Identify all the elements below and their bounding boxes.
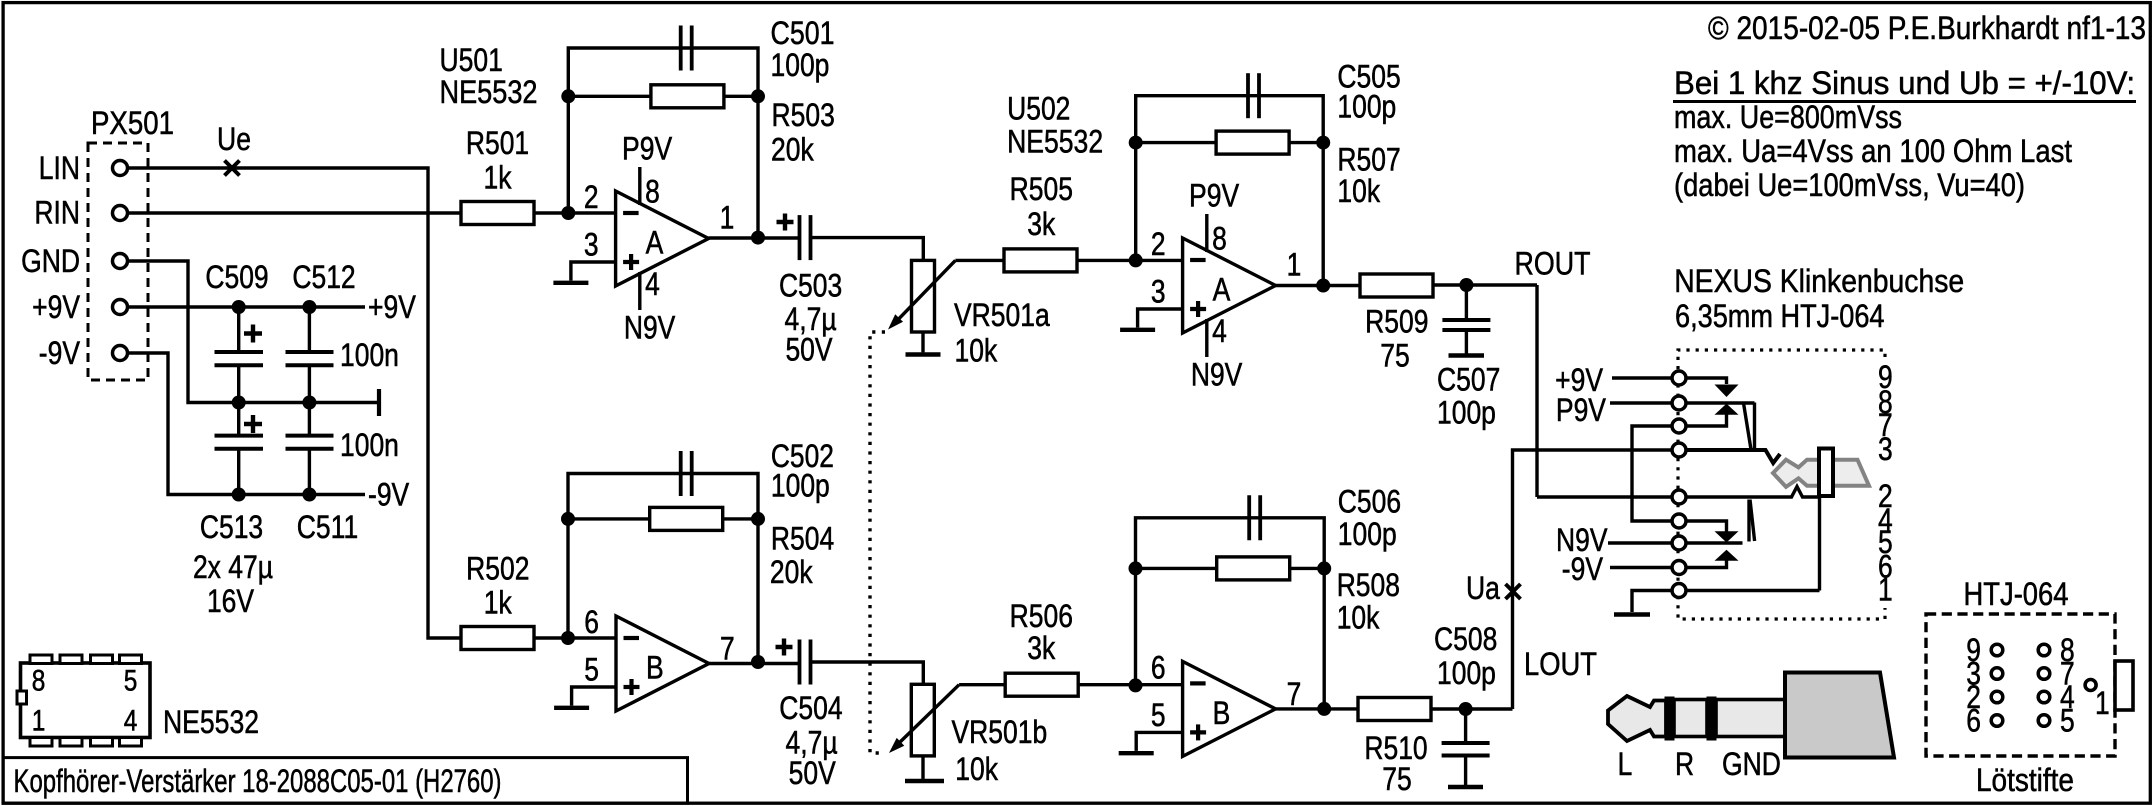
svg-text:100p: 100p [771, 47, 830, 83]
capacitor C507 [1465, 285, 1468, 320]
svg-text:R: R [1675, 746, 1694, 782]
wire VR501b wiper to R506 [959, 683, 1005, 686]
svg-text:C509: C509 [205, 259, 268, 295]
svg-text:GND: GND [1722, 746, 1781, 782]
ground U502 pin3 [1138, 309, 1183, 328]
svg-text:100p: 100p [1437, 655, 1496, 691]
title box [3, 758, 687, 804]
svg-text:RIN: RIN [34, 195, 80, 231]
jack outline dotted box [1678, 350, 1885, 619]
svg-text:C513: C513 [200, 509, 263, 545]
svg-text:LIN: LIN [39, 150, 80, 186]
svg-text:75: 75 [1380, 338, 1410, 374]
node U502 A output [1276, 284, 1360, 287]
svg-text:8: 8 [1212, 221, 1227, 257]
svg-text:(dabei Ue=100mVss, Vu=40): (dabei Ue=100mVss, Vu=40) [1674, 167, 2025, 203]
wire U502 B feedback [1136, 518, 1325, 709]
HTJ-064 dashed box [1926, 614, 2115, 756]
HTJ-064 pad 1 [2085, 680, 2096, 691]
node U501 pin6 [561, 631, 575, 645]
wire jack pin7 to pin4 [1632, 426, 1679, 521]
plug icon barrel1 [1674, 700, 1707, 737]
svg-text:10k: 10k [1337, 600, 1380, 636]
plug icon body [1785, 673, 1894, 758]
svg-text:20k: 20k [770, 554, 813, 590]
IC package notch [17, 691, 27, 704]
IC package pins bottom [30, 738, 52, 747]
svg-text:LOUT: LOUT [1524, 646, 1597, 682]
svg-text:-9V: -9V [368, 477, 409, 513]
capacitor C511 [308, 403, 311, 436]
svg-text:NE5532: NE5532 [1007, 124, 1103, 160]
svg-text:100p: 100p [1437, 395, 1496, 431]
svg-text:NE5532: NE5532 [163, 704, 259, 740]
capacitor C508 [1464, 709, 1467, 743]
svg-text:100n: 100n [340, 337, 399, 373]
svg-text:1: 1 [1287, 247, 1302, 283]
resistor R507 [1136, 141, 1216, 144]
jack pin circles [1672, 371, 1686, 385]
svg-text:R507: R507 [1337, 141, 1400, 177]
svg-text:3k: 3k [1027, 630, 1056, 666]
svg-text:7: 7 [720, 631, 735, 667]
op-amp U501 B [616, 616, 709, 711]
svg-text:3: 3 [584, 227, 599, 263]
svg-text:3k: 3k [1027, 206, 1056, 242]
svg-text:1: 1 [2095, 685, 2110, 721]
svg-text:P9V: P9V [622, 131, 672, 167]
svg-text:R506: R506 [1010, 598, 1073, 634]
svg-text:C507: C507 [1437, 361, 1500, 397]
svg-text:8: 8 [32, 665, 46, 698]
potentiometer VR501a [912, 260, 935, 332]
svg-text:VR501a: VR501a [954, 297, 1050, 333]
potentiometer VR501b [911, 684, 934, 756]
capacitor C505 [1246, 73, 1250, 118]
svg-text:GND: GND [21, 243, 80, 279]
wire jack sleeve to pin1 [1818, 496, 1821, 591]
svg-text:6: 6 [1151, 649, 1166, 685]
svg-text:R508: R508 [1337, 567, 1400, 603]
wire +9V rail [128, 305, 365, 308]
svg-text:© 2015-02-05 P.E.Burkhardt nf1: © 2015-02-05 P.E.Burkhardt nf1-13 [1708, 10, 2146, 46]
capacitor C501 [679, 26, 683, 71]
capacitor C504 [798, 640, 802, 685]
svg-text:C503: C503 [779, 268, 842, 304]
svg-text:2: 2 [584, 179, 599, 215]
svg-text:P9V: P9V [1189, 178, 1239, 214]
node LOUT [1459, 702, 1473, 716]
svg-text:Ue: Ue [217, 121, 251, 157]
svg-text:+9V: +9V [368, 289, 416, 325]
HTJ-064 pads right column [2038, 644, 2050, 656]
svg-text:C511: C511 [297, 509, 358, 545]
svg-text:-9V: -9V [1562, 551, 1603, 587]
jack switch pin5 contact [1679, 541, 1743, 544]
svg-text:1: 1 [1878, 572, 1893, 608]
jack switch leaf top [1753, 403, 1756, 450]
node ROUT [1459, 278, 1473, 292]
node mid rail junctions [232, 396, 246, 410]
wire C504 to VR501b [811, 662, 924, 684]
wire U501 feedback [568, 48, 758, 238]
pin +9V [113, 300, 128, 315]
resistor R503 [568, 95, 651, 98]
svg-text:L: L [1618, 746, 1633, 782]
svg-text:max. Ua=4Vss an 100 Ohm Last: max. Ua=4Vss an 100 Ohm Last [1674, 133, 2072, 169]
svg-text:6: 6 [584, 604, 599, 640]
svg-text:100p: 100p [1338, 516, 1397, 552]
svg-text:2: 2 [1151, 226, 1166, 262]
svg-text:50V: 50V [785, 332, 832, 368]
svg-text:100p: 100p [771, 468, 830, 504]
capacitor C502 [679, 451, 683, 496]
capacitor C503 [798, 215, 802, 260]
node U502 pin6 [1129, 678, 1143, 692]
svg-text:C506: C506 [1338, 483, 1401, 519]
node U501 A output [709, 236, 799, 239]
svg-text:N9V: N9V [624, 310, 676, 346]
pin GND [113, 254, 128, 269]
svg-text:50V: 50V [789, 755, 836, 791]
capacitor C512 [308, 307, 311, 352]
svg-text:U502: U502 [1007, 91, 1070, 127]
inserted plug body [1773, 460, 1869, 487]
op-amp U502 A [1183, 238, 1276, 333]
svg-text:C512: C512 [292, 259, 355, 295]
wire RIN to R501 [128, 211, 461, 214]
svg-text:75: 75 [1382, 761, 1412, 797]
svg-text:-9V: -9V [39, 335, 80, 371]
svg-text:10k: 10k [1337, 173, 1380, 209]
svg-text:2x 47µ: 2x 47µ [193, 549, 273, 585]
wire ROUT to jack pin2 [1535, 285, 1538, 497]
ground U502 pin5 [1136, 732, 1182, 751]
svg-text:ROUT: ROUT [1515, 246, 1591, 282]
jack switch leaf bottom [1747, 500, 1750, 542]
node U501 B output [709, 662, 799, 665]
wire jack pin1 to ground [1632, 591, 1820, 613]
svg-text:PX501: PX501 [91, 105, 174, 141]
node U502 pin2 [1129, 253, 1143, 267]
svg-text:5: 5 [124, 665, 138, 698]
capacitor C513 [237, 403, 240, 436]
svg-text:C504: C504 [779, 690, 842, 726]
svg-text:U501: U501 [440, 42, 503, 78]
wire GND rail [128, 261, 377, 403]
jack switch pin6 contact [1679, 561, 1727, 568]
pin -9V [113, 346, 128, 361]
plug icon ring1 [1665, 697, 1674, 740]
ground U501 pin5 [572, 687, 616, 706]
plug icon barrel2 [1716, 700, 1785, 737]
op-amp U502 B [1183, 661, 1276, 756]
svg-text:8: 8 [645, 174, 660, 210]
wire jack pin2 from ROUT [1537, 495, 1679, 498]
svg-text:20k: 20k [771, 131, 814, 167]
HTJ-064 pads left column [1991, 644, 2003, 656]
resistor R510 [1358, 698, 1431, 721]
svg-text:Kopfhörer-Verstärker 18-2088C0: Kopfhörer-Verstärker 18-2088C05-01 (H276… [14, 763, 502, 799]
jack sleeve contact rect [1819, 449, 1833, 497]
svg-text:5: 5 [1151, 697, 1166, 733]
resistor R508 [1136, 567, 1217, 570]
svg-text:4: 4 [645, 266, 660, 302]
resistor R504 [568, 517, 650, 520]
plug icon ring2 [1707, 697, 1716, 740]
svg-text:+9V: +9V [32, 289, 80, 325]
wire VR501a wiper to R505 [955, 259, 1004, 262]
svg-text:Lötstifte: Lötstifte [1976, 762, 2074, 798]
svg-text:R501: R501 [466, 125, 529, 161]
svg-text:1: 1 [720, 200, 735, 236]
svg-text:HTJ-064: HTJ-064 [1964, 576, 2069, 612]
op-amp U501 A [616, 191, 709, 286]
svg-text:7: 7 [1287, 676, 1302, 712]
svg-text:6: 6 [1966, 703, 1981, 739]
IC package pins top [30, 655, 52, 664]
wire U502 feedback [1136, 96, 1324, 286]
svg-text:R502: R502 [466, 551, 529, 587]
wire C503 to VR501a [811, 238, 924, 261]
svg-text:R503: R503 [772, 97, 835, 133]
svg-text:10k: 10k [955, 333, 998, 369]
svg-text:NEXUS Klinkenbuchse: NEXUS Klinkenbuchse [1674, 263, 1964, 299]
svg-text:1k: 1k [484, 160, 513, 196]
svg-text:max. Ue=800mVss: max. Ue=800mVss [1674, 99, 1902, 135]
svg-text:B: B [646, 650, 664, 686]
svg-text:5: 5 [584, 652, 599, 688]
IC package NE5532 body [21, 663, 151, 738]
svg-text:R509: R509 [1365, 303, 1428, 339]
svg-text:C501: C501 [771, 15, 835, 51]
HTJ-064 tab [2115, 661, 2133, 710]
svg-text:4: 4 [124, 705, 138, 738]
plug icon tip [1608, 696, 1666, 741]
jack switch pin9 contact [1679, 378, 1727, 384]
pin RIN [113, 206, 128, 221]
svg-text:100p: 100p [1337, 89, 1396, 125]
wire gang dotted link [870, 332, 885, 753]
node U502 B output [1276, 707, 1358, 710]
svg-text:1k: 1k [484, 585, 513, 621]
svg-text:6,35mm HTJ-064: 6,35mm HTJ-064 [1675, 298, 1885, 334]
svg-text:3: 3 [1878, 431, 1893, 467]
resistor R501 [461, 202, 534, 225]
svg-text:A: A [646, 225, 664, 261]
svg-text:NE5532: NE5532 [440, 74, 538, 110]
svg-text:5: 5 [2060, 703, 2075, 739]
svg-text:Ua: Ua [1466, 570, 1501, 606]
capacitor C509 [237, 307, 240, 352]
wire U501 B feedback [568, 474, 758, 663]
connector PX501 outline [88, 143, 148, 380]
svg-text:3: 3 [1151, 274, 1166, 310]
capacitor C506 [1247, 495, 1251, 540]
svg-text:VR501b: VR501b [952, 714, 1048, 750]
resistor R502 [461, 627, 534, 650]
jack pin2 ring contact [1679, 487, 1820, 498]
resistor R509 [1360, 274, 1433, 297]
resistor R506 [1005, 673, 1078, 696]
pin LIN [113, 161, 128, 176]
svg-text:N9V: N9V [1191, 357, 1243, 393]
svg-text:16V: 16V [207, 583, 254, 619]
wire -9V rail [128, 353, 365, 495]
jack pin3 tip contact [1679, 450, 1780, 463]
wire LIN to R502 [128, 168, 461, 638]
svg-text:1: 1 [32, 705, 46, 738]
jack switch pin4 contact [1679, 521, 1727, 532]
svg-text:4: 4 [1212, 313, 1227, 349]
jack switch pin8 contact [1679, 401, 1755, 404]
svg-text:C508: C508 [1434, 621, 1497, 657]
svg-text:Bei 1 khz Sinus und Ub = +/-10: Bei 1 khz Sinus und Ub = +/-10V: [1674, 65, 2135, 101]
ground U501 pin3 [571, 262, 616, 281]
svg-text:100n: 100n [340, 427, 399, 463]
svg-text:A: A [1213, 272, 1231, 308]
wire LOUT to jack pin3 [1513, 450, 1680, 709]
svg-text:R505: R505 [1010, 171, 1073, 207]
node U501 pin2 [561, 206, 575, 220]
svg-text:10k: 10k [955, 751, 998, 787]
svg-text:B: B [1213, 695, 1231, 731]
resistor R505 [1004, 249, 1077, 272]
svg-text:R504: R504 [771, 520, 834, 556]
svg-text:P9V: P9V [1556, 392, 1606, 428]
